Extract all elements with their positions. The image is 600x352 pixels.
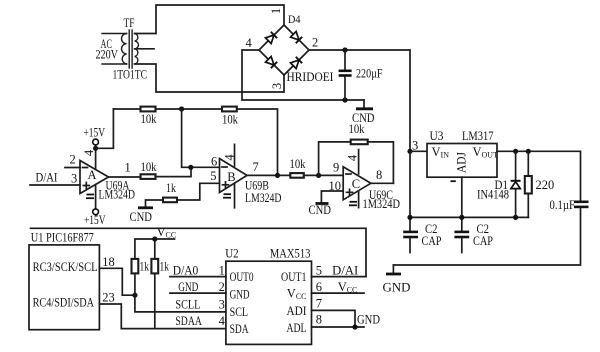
svg-text:U3: U3 (430, 129, 444, 143)
svg-text:4: 4 (82, 149, 96, 156)
svg-text:7: 7 (316, 297, 322, 311)
svg-text:3: 3 (270, 83, 284, 89)
svg-text:5: 5 (316, 264, 322, 278)
svg-text:220µF: 220µF (356, 67, 383, 81)
svg-text:HRIDOEI: HRIDOEI (287, 70, 334, 84)
svg-text:220: 220 (536, 178, 555, 192)
svg-text:ADJ: ADJ (455, 152, 469, 173)
svg-text:SCLL: SCLL (175, 298, 200, 312)
svg-text:4: 4 (246, 36, 253, 50)
svg-text:4: 4 (346, 154, 360, 161)
svg-text:220V: 220V (96, 48, 119, 62)
svg-text:SDAA: SDAA (175, 314, 202, 328)
svg-text:U2: U2 (225, 247, 239, 261)
svg-text:+15V: +15V (84, 213, 106, 227)
svg-text:D/AI: D/AI (332, 264, 358, 278)
svg-text:5: 5 (210, 169, 216, 183)
svg-text:10k: 10k (141, 112, 158, 126)
svg-text:CND: CND (130, 210, 153, 224)
svg-text:1: 1 (219, 264, 225, 278)
svg-text:OUT0: OUT0 (230, 270, 254, 284)
svg-text:10k: 10k (290, 157, 307, 171)
svg-text:18: 18 (102, 255, 115, 269)
svg-text:IN4148: IN4148 (477, 188, 509, 202)
svg-text:CAP: CAP (422, 234, 442, 248)
svg-text:7: 7 (253, 160, 259, 174)
svg-text:8: 8 (316, 313, 322, 327)
svg-text:ADL: ADL (287, 321, 307, 335)
svg-text:2: 2 (219, 280, 225, 294)
svg-text:D/A0: D/A0 (173, 264, 199, 278)
svg-text:1TO1TC: 1TO1TC (113, 68, 148, 82)
svg-text:MAX513: MAX513 (270, 247, 311, 261)
svg-text:10k: 10k (222, 113, 239, 127)
svg-text:23: 23 (102, 291, 115, 305)
svg-text:LM317: LM317 (462, 129, 494, 143)
svg-text:CAP: CAP (473, 234, 493, 248)
svg-text:1k: 1k (160, 260, 170, 274)
svg-text:1M324D: 1M324D (363, 197, 401, 211)
svg-text:D/AI: D/AI (36, 171, 58, 185)
svg-text:2: 2 (70, 153, 76, 167)
svg-text:10k: 10k (141, 160, 158, 174)
svg-text:3: 3 (219, 298, 225, 312)
svg-text:C: C (352, 177, 360, 191)
svg-text:RC4/SDI/SDA: RC4/SDI/SDA (33, 296, 95, 310)
svg-text:U1 PIC16F877: U1 PIC16F877 (31, 231, 94, 245)
svg-text:2: 2 (312, 36, 318, 50)
svg-text:6: 6 (316, 280, 322, 294)
svg-text:OUT1: OUT1 (281, 270, 307, 284)
svg-text:1: 1 (125, 161, 131, 175)
svg-text:1: 1 (269, 8, 283, 14)
svg-text:ADI: ADI (287, 304, 307, 318)
svg-text:9: 9 (333, 161, 339, 175)
svg-text:3: 3 (71, 172, 77, 186)
svg-text:+15V: +15V (84, 126, 106, 140)
svg-text:B: B (227, 170, 235, 184)
svg-text:RC3/SCK/SCL: RC3/SCK/SCL (33, 260, 98, 274)
svg-text:SDA: SDA (230, 322, 249, 336)
svg-text:GND: GND (383, 281, 411, 295)
svg-text:LM324D: LM324D (245, 191, 282, 205)
svg-text:6: 6 (211, 155, 217, 169)
svg-text:8: 8 (376, 168, 382, 182)
svg-text:0.1µF: 0.1µF (550, 198, 576, 212)
svg-text:GND: GND (357, 313, 380, 327)
svg-text:1k: 1k (140, 260, 150, 274)
svg-text:4: 4 (223, 154, 237, 161)
svg-text:1k: 1k (166, 181, 177, 195)
svg-text:TF: TF (124, 16, 135, 30)
svg-text:CND: CND (309, 203, 332, 217)
svg-text:3: 3 (412, 139, 418, 153)
svg-text:GND: GND (178, 280, 198, 294)
svg-text:GND: GND (230, 287, 250, 301)
svg-text:D4: D4 (288, 14, 301, 26)
svg-text:4: 4 (219, 314, 226, 328)
svg-text:SCL: SCL (230, 305, 249, 319)
svg-text:10k: 10k (349, 122, 366, 136)
svg-text:LM324D: LM324D (99, 188, 136, 202)
